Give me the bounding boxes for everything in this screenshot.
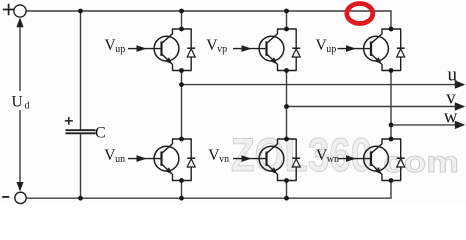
- svg-text:wn: wn: [327, 154, 339, 165]
- svg-text:un: un: [115, 154, 125, 165]
- svg-text:u: u: [448, 65, 458, 86]
- svg-text:v: v: [446, 87, 456, 108]
- svg-text:w: w: [444, 107, 458, 128]
- svg-text:ZOL360: ZOL360: [231, 128, 372, 181]
- svg-text:U: U: [12, 93, 23, 110]
- svg-text:vn: vn: [219, 154, 229, 165]
- svg-text:up: up: [115, 44, 125, 55]
- svg-text:C: C: [95, 124, 106, 141]
- svg-text:up: up: [326, 44, 336, 55]
- svg-text:d: d: [25, 101, 30, 112]
- svg-text:vp: vp: [217, 44, 227, 55]
